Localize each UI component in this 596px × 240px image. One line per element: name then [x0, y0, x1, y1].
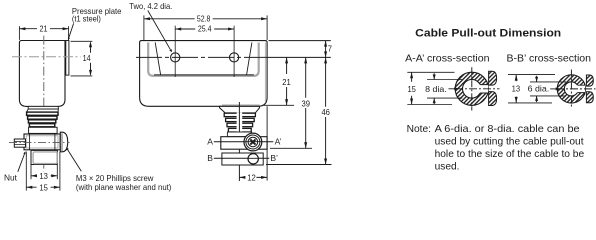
vertical centerline (left view): [43, 36, 45, 172]
dim 15 line: [411, 72, 413, 104]
B-B' crosshair: [556, 88, 596, 90]
svg-text:46: 46: [321, 107, 330, 117]
section line B-B': [214, 157, 269, 159]
section line A-A': [214, 141, 273, 143]
svg-text:Note:: Note:: [407, 124, 431, 135]
dim 13 extension lines: [508, 75, 555, 103]
svg-text:Two, 4.2 dia.: Two, 4.2 dia.: [129, 1, 172, 11]
reference line top right (plate top): [269, 40, 331, 42]
boot slit gap: [237, 113, 243, 133]
hole axis reference line (right, solid): [268, 56, 331, 58]
recess slant right: [247, 42, 252, 74]
phillips cross: [250, 139, 255, 144]
svg-text:used.: used.: [435, 161, 460, 172]
nut facet lines: [30, 134, 55, 150]
boot neck band (left view): [28, 106, 58, 109]
threaded stem (left view): [31, 150, 57, 164]
svg-text:12: 12: [247, 173, 256, 183]
dim 8 stubs and arrows: [433, 73, 435, 104]
dim 15 line: [26, 186, 60, 188]
svg-text:13: 13: [512, 83, 521, 93]
svg-text:7: 7: [328, 44, 332, 54]
right mounting hole: [230, 53, 239, 62]
dim 15 arrows: [26, 186, 32, 189]
svg-text:Nut: Nut: [4, 173, 18, 183]
svg-text:B-B’ cross-section: B-B’ cross-section: [507, 53, 592, 64]
leader for Nut: [18, 153, 25, 172]
dim 21 arrows: [19, 27, 25, 30]
dim 12 line: [239, 176, 267, 178]
dim 39 line: [305, 57, 307, 148]
dim 52.8 line: [144, 18, 267, 20]
right edge extension below body: [266, 106, 268, 180]
B-B' section: clamp tab lower: [586, 92, 593, 103]
dim 13 arrows: [515, 75, 518, 81]
boot rib 3 (front view): [227, 123, 253, 127]
svg-text:15: 15: [407, 84, 416, 94]
screw axis centerline: [9, 141, 70, 143]
leader for M3 screw: [68, 150, 82, 172]
phillips screw head mid circle: [246, 135, 260, 149]
dim 21 extension lines: [19, 26, 68, 40]
A-A' section: opening edges: [480, 85, 488, 93]
svg-text:8 dia.: 8 dia.: [425, 84, 447, 94]
A-A' section: clamp tab lower: [489, 92, 497, 106]
cable hole circle (B level): [248, 154, 258, 164]
svg-text:Cable Pull-out Dimension: Cable Pull-out Dimension: [415, 27, 561, 39]
dim 13 arrows: [31, 174, 37, 177]
dim 13 line: [31, 175, 57, 177]
svg-text:A-A’ cross-section: A-A’ cross-section: [405, 53, 490, 64]
A-A' crosshair: [455, 88, 500, 90]
svg-text:used by cutting the cable pull: used by cutting the cable pull-out: [435, 136, 584, 147]
A-A' section: opening gap: [480, 85, 489, 94]
dim 39 arrows: [304, 57, 307, 63]
phillips screw head outer circle: [244, 133, 262, 151]
A-A' section: cable hole: [463, 80, 482, 99]
svg-text:B’: B’: [270, 153, 278, 163]
boot rib 1 (front view): [224, 113, 255, 116]
cable centerline (front view): [238, 102, 240, 181]
A-A' section: hatched ring: [455, 72, 488, 105]
B-B' section: clamp tab upper: [586, 75, 593, 86]
dim 15 extension lines: [407, 72, 454, 104]
svg-text:14: 14: [83, 53, 91, 63]
svg-text:21: 21: [282, 77, 291, 87]
A-A' section: clamp tab upper: [489, 71, 497, 85]
B-B' section: opening gap: [577, 85, 585, 93]
svg-text:A: A: [207, 137, 213, 147]
B-B' section: cable hole: [564, 82, 578, 96]
6 dia. leader: [550, 88, 558, 90]
clamp lower block (front view): [222, 153, 263, 165]
svg-text:15: 15: [39, 182, 48, 192]
dim 7 line: [325, 41, 327, 58]
boot taper (left view): [27, 109, 59, 112]
dim 52.8 extension lines: [144, 15, 267, 40]
svg-text:21: 21: [40, 24, 48, 34]
svg-text:A’: A’: [275, 137, 282, 147]
dim 8 extension lines: [427, 80, 462, 99]
svg-text:6 dia.: 6 dia.: [528, 83, 550, 93]
body bottom reference line: [264, 104, 295, 106]
clamp bottom reference line: [270, 147, 312, 149]
dim 15 arrows: [410, 72, 413, 78]
boot rib 4 (left view): [29, 124, 54, 127]
boot rib 2 (front view): [226, 118, 255, 121]
clamp step (front view): [227, 132, 251, 137]
sensor body (side view): [19, 41, 65, 107]
boot rib 1 (left view): [27, 112, 58, 115]
section line A-A' over screw: [243, 141, 262, 143]
svg-text:(with plane washer and nut): (with plane washer and nut): [76, 182, 172, 192]
dim 46 line: [325, 57, 327, 164]
section line B-B' over circle: [248, 157, 258, 159]
screw tip thread lines: [14, 142, 25, 145]
screw tip (left side): [14, 139, 25, 147]
svg-text:(t1 steel): (t1 steel): [72, 13, 101, 23]
dim 25.4 line: [175, 28, 234, 30]
dim 6 extension lines: [530, 82, 566, 96]
leader for holes: [148, 11, 171, 50]
clamp upper block (front view): [221, 137, 267, 150]
boot end stub (left view): [29, 127, 57, 133]
dim 25.4 arrows: [175, 28, 181, 31]
recess slant left: [155, 42, 160, 74]
dim 14 line: [90, 43, 92, 75]
body right edge shadow line: [264, 43, 266, 102]
hole centerline (horizontal reference): [136, 56, 268, 58]
screw head capsule (right side): [60, 132, 67, 152]
phillips screw head inner circle: [248, 137, 258, 147]
dim 6 stubs and arrows: [536, 76, 538, 102]
pressure plate (edge view): [66, 41, 69, 76]
svg-text:hole to the size of the cable: hole to the size of the cable to be: [435, 149, 585, 160]
capsule inner edge line: [61, 133, 63, 151]
8 dia. leader: [449, 88, 457, 90]
recess dark bottom line: [154, 74, 254, 76]
left mounting hole: [171, 53, 180, 62]
svg-text:39: 39: [302, 98, 311, 108]
B-B' section: hatched ring: [557, 75, 585, 103]
left hole vertical centerline / dim 25.4 extension: [174, 26, 176, 77]
B-B' section: opening edges: [577, 85, 585, 92]
boot rib 3 (left view): [28, 120, 55, 123]
svg-text:A 6-dia. or 8-dia. cable can b: A 6-dia. or 8-dia. cable can be: [435, 124, 580, 135]
svg-text:25.4: 25.4: [198, 24, 212, 34]
svg-text:B: B: [207, 153, 213, 163]
boot rib 2 (left view): [28, 116, 57, 119]
dim 14 arrows: [89, 41, 92, 47]
dim 12 arrows: [239, 176, 245, 179]
lower block bottom reference line: [266, 164, 332, 166]
sensor body (front view): [140, 41, 268, 107]
dim 13 extension lines: [31, 165, 57, 180]
horizontal centerline (left view upper): [12, 56, 81, 58]
body bottom shadow line: [222, 104, 260, 106]
svg-text:52.8: 52.8: [197, 14, 211, 24]
dim 52.8 arrows: [144, 17, 150, 20]
dim 21 line: [19, 28, 68, 30]
stem inner sleeve (grey): [33, 152, 57, 164]
dim 21 (front) line: [286, 57, 288, 105]
dim 46 arrows: [324, 57, 327, 63]
boot neck (front view): [220, 106, 260, 113]
recessed face (grey outline): [148, 43, 259, 76]
svg-text:13: 13: [39, 171, 48, 181]
leader for pressure plate: [69, 23, 74, 38]
dim 14 extension lines: [71, 41, 93, 76]
clamp nut block (left view): [24, 134, 60, 150]
right hole vertical centerline / dim 25.4 extension: [233, 26, 235, 77]
dim 15 extension lines: [26, 152, 60, 191]
dim 21 (front) arrows: [285, 57, 288, 63]
dim 7 arrows: [324, 41, 327, 47]
boot rib 4 (front view): [228, 128, 251, 132]
dim 13 line: [515, 75, 517, 103]
